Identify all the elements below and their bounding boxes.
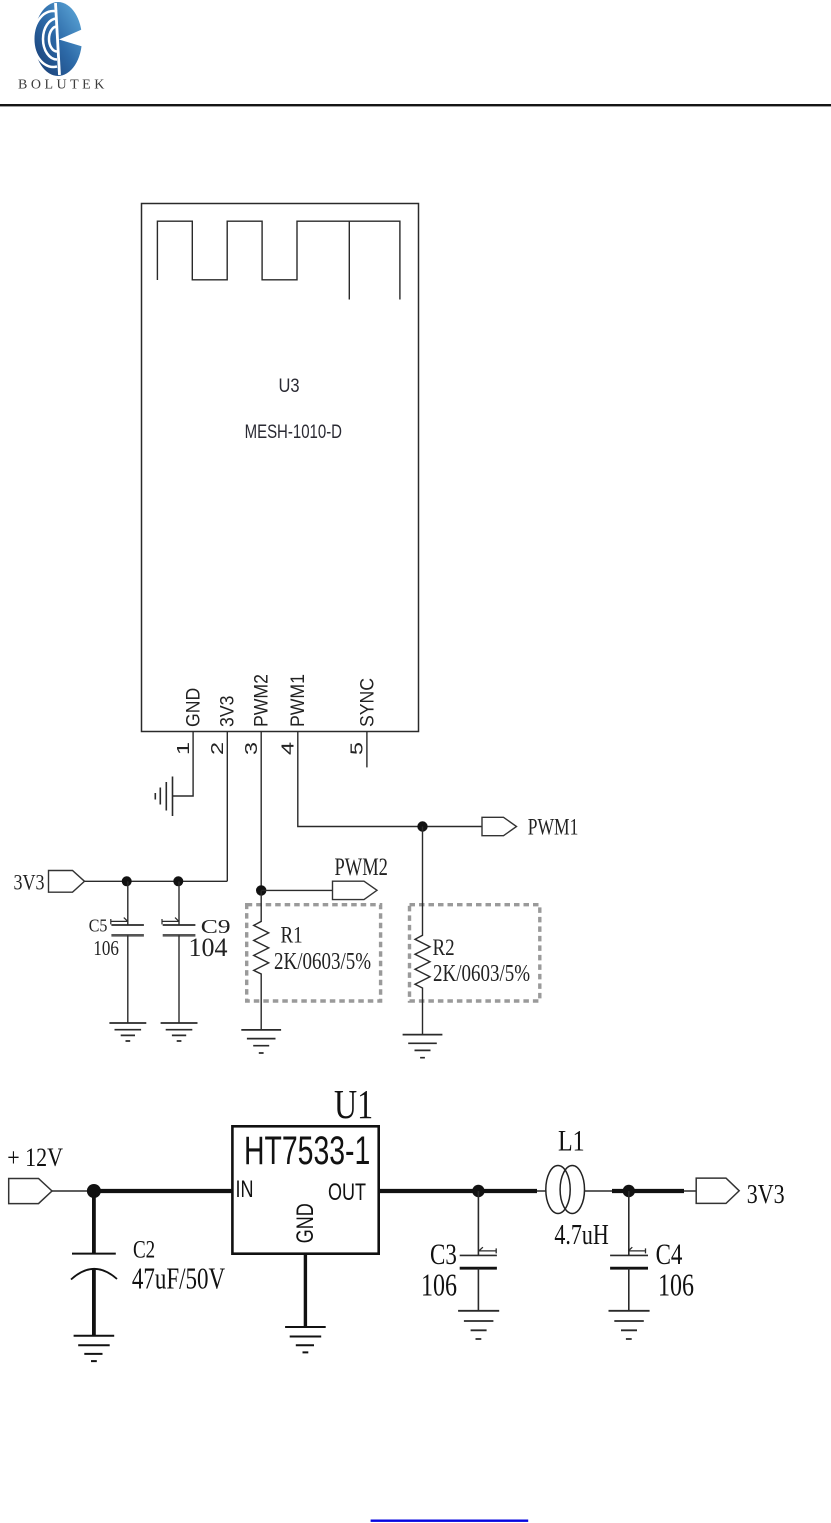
- svg-text:IN: IN: [236, 1175, 254, 1202]
- antenna meander inside U3: [157, 221, 400, 299]
- svg-text:1: 1: [173, 742, 193, 755]
- inductor L1: [546, 1166, 585, 1214]
- ground at C5: [109, 1023, 146, 1041]
- U1 part number HT7533-1: [244, 1129, 370, 1173]
- junction dot C4: [623, 1185, 635, 1197]
- footer hyperlink rule: [371, 1520, 529, 1522]
- pin label SYNC: [356, 678, 378, 727]
- svg-text:BOLUTEK: BOLUTEK: [18, 78, 108, 93]
- DNP dashed box around R2: [410, 905, 540, 1001]
- C9 value 104: [189, 933, 228, 962]
- U3 value text MESH-1010-D: [245, 420, 342, 442]
- U1 pin label OUT: [328, 1178, 366, 1205]
- ground symbol at pin 1 (rotated): [155, 777, 172, 817]
- R1 value 2K/0603/5%: [274, 947, 371, 975]
- wire +12V to IN: [52, 1190, 232, 1192]
- junction dot C2: [87, 1184, 101, 1198]
- svg-text:R1: R1: [281, 922, 303, 948]
- net label 3V3 (left): [14, 871, 45, 895]
- junction dot PWM1/R2: [417, 821, 427, 831]
- U1 designator: [334, 1082, 373, 1128]
- C5 designator: [89, 916, 108, 936]
- net label PWM2: [335, 852, 388, 880]
- capacitor C4: [610, 1191, 648, 1311]
- svg-text:C3: C3: [430, 1237, 457, 1271]
- C3 designator: [430, 1237, 457, 1271]
- C4 designator: [656, 1237, 683, 1271]
- svg-text:PWM1: PWM1: [287, 674, 309, 727]
- ground at C9: [161, 1023, 198, 1041]
- svg-text:104: 104: [189, 933, 228, 962]
- pin label GND: [182, 688, 204, 727]
- connector PWM1: [482, 817, 517, 835]
- R1 designator: [281, 922, 303, 948]
- C4 value 106: [658, 1269, 694, 1304]
- junction dot PWM2/R1: [256, 885, 266, 895]
- pin 1 GND wire: [173, 731, 194, 796]
- svg-text:C2: C2: [133, 1235, 155, 1263]
- svg-text:3: 3: [241, 742, 261, 755]
- ground at C4: [609, 1311, 650, 1339]
- U1 pin label IN: [236, 1175, 254, 1202]
- pin label PWM1: [287, 674, 309, 727]
- net label 3V3 (output): [747, 1180, 785, 1210]
- capacitor C2 (polarized): [71, 1191, 117, 1336]
- L1 designator: [558, 1124, 585, 1157]
- pin label PWM2: [250, 674, 272, 727]
- Bolutek logo icon: [33, 2, 84, 76]
- ground at C2: [74, 1336, 115, 1361]
- svg-text:106: 106: [658, 1269, 694, 1304]
- capacitor C9: [162, 881, 195, 1023]
- L1 value 4.7uH: [554, 1218, 608, 1251]
- svg-text:3V3: 3V3: [14, 871, 45, 895]
- svg-text:GND: GND: [291, 1203, 318, 1243]
- svg-text:U3: U3: [278, 375, 299, 397]
- ground at R2: [403, 1035, 443, 1058]
- svg-text:L1: L1: [558, 1124, 585, 1157]
- C5 value 106: [93, 937, 119, 960]
- resistor R1: [254, 890, 269, 1030]
- junction dot C3: [472, 1185, 484, 1197]
- svg-text:HT7533-1: HT7533-1: [244, 1129, 370, 1173]
- svg-text:3V3: 3V3: [747, 1180, 785, 1210]
- connector PWM2: [333, 881, 378, 899]
- resistor R2: [415, 827, 430, 1035]
- pin 2 wire to 3V3 rail: [226, 731, 228, 881]
- pin number 4: [278, 742, 298, 755]
- svg-text:PWM2: PWM2: [335, 852, 388, 880]
- svg-text:PWM2: PWM2: [250, 674, 272, 727]
- pin 3 wire: [260, 731, 262, 890]
- svg-text:MESH-1010-D: MESH-1010-D: [245, 420, 342, 442]
- 3V3 rail wire: [85, 880, 228, 882]
- pin number 2: [207, 742, 227, 755]
- junction dot C9: [173, 876, 183, 886]
- PWM2 stub wire: [261, 889, 332, 891]
- U3 designator text: [278, 375, 299, 397]
- wire OUT to L1: [379, 1189, 546, 1193]
- ground at C3: [458, 1311, 499, 1339]
- svg-text:47uF/50V: 47uF/50V: [132, 1261, 225, 1295]
- svg-text:4: 4: [278, 742, 298, 755]
- connector 3V3 (left): [49, 871, 85, 893]
- pin number 5: [347, 742, 367, 755]
- C2 designator: [133, 1235, 155, 1263]
- svg-text:SYNC: SYNC: [356, 678, 378, 727]
- pin 4 wire to PWM1: [298, 731, 482, 826]
- header divider: [0, 104, 831, 106]
- svg-text:U1: U1: [334, 1082, 373, 1128]
- junction dot C5: [122, 876, 132, 886]
- pin number 1: [173, 742, 193, 755]
- C9 designator: [201, 916, 231, 938]
- svg-text:PWM1: PWM1: [528, 815, 579, 840]
- svg-text:OUT: OUT: [328, 1178, 366, 1205]
- svg-text:+ 12V: + 12V: [7, 1143, 63, 1172]
- ground at U1 GND: [285, 1327, 326, 1352]
- C3 value 106: [421, 1269, 457, 1304]
- capacitor C3: [460, 1191, 497, 1311]
- connector 3V3 (output): [696, 1178, 739, 1203]
- svg-text:C5: C5: [89, 916, 108, 936]
- ground at R1: [241, 1030, 281, 1053]
- C2 value 47uF/50V: [132, 1261, 225, 1295]
- U1 GND pin wire: [304, 1254, 307, 1327]
- connector +12V: [9, 1179, 52, 1204]
- svg-text:5: 5: [347, 742, 367, 755]
- Bolutek logo wordmark: [18, 78, 108, 93]
- svg-text:106: 106: [421, 1269, 457, 1304]
- pin number 3: [241, 742, 261, 755]
- net label +12V: [7, 1143, 63, 1172]
- DNP dashed box around R1: [247, 905, 381, 1001]
- regulator U1 body: [232, 1126, 378, 1253]
- svg-text:3V3: 3V3: [216, 696, 238, 727]
- wire L1 to 3V3 connector: [585, 1190, 697, 1192]
- pin label 3V3: [216, 696, 238, 727]
- svg-text:106: 106: [93, 937, 119, 960]
- svg-text:C4: C4: [656, 1237, 683, 1271]
- svg-text:R2: R2: [433, 935, 455, 961]
- svg-text:2K/0603/5%: 2K/0603/5%: [433, 959, 530, 987]
- svg-text:2: 2: [207, 742, 227, 755]
- IC U3 body: [142, 204, 419, 732]
- svg-text:GND: GND: [182, 688, 204, 727]
- R2 value 2K/0603/5%: [433, 959, 530, 987]
- pin 5 SYNC stub: [366, 731, 368, 767]
- U1 pin label GND (rotated): [291, 1203, 318, 1243]
- svg-text:4.7uH: 4.7uH: [554, 1218, 608, 1251]
- R2 designator: [433, 935, 455, 961]
- capacitor C5: [111, 881, 144, 1023]
- net label PWM1: [528, 815, 579, 840]
- svg-text:2K/0603/5%: 2K/0603/5%: [274, 947, 371, 975]
